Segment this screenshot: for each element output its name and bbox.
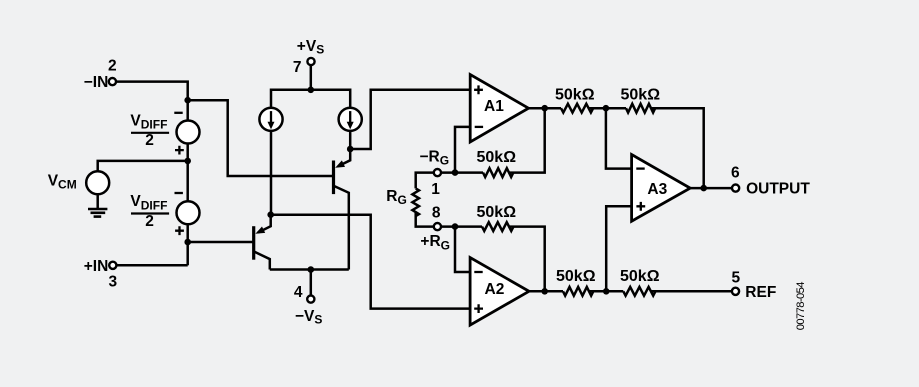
svg-text:4: 4 [294,284,303,301]
svg-text:7: 7 [293,59,302,76]
svg-text:50kΩ: 50kΩ [477,149,517,166]
svg-text:50kΩ: 50kΩ [621,86,661,103]
svg-text:2: 2 [145,213,154,230]
svg-text:2: 2 [145,132,154,149]
svg-text:3: 3 [108,273,117,290]
svg-text:50kΩ: 50kΩ [477,204,517,221]
svg-text:00778-054: 00778-054 [795,282,807,330]
svg-text:−IN: −IN [84,74,109,91]
svg-text:+IN: +IN [84,258,109,275]
svg-text:REF: REF [745,284,776,301]
svg-text:A3: A3 [647,181,667,198]
svg-text:2: 2 [108,57,117,74]
svg-text:8: 8 [432,205,441,222]
svg-text:A2: A2 [485,281,505,298]
svg-text:5: 5 [731,269,740,286]
svg-text:50kΩ: 50kΩ [620,268,660,285]
svg-text:1: 1 [431,181,440,198]
svg-text:50kΩ: 50kΩ [556,268,596,285]
svg-text:6: 6 [731,164,740,181]
svg-text:OUTPUT: OUTPUT [746,181,810,198]
svg-text:A1: A1 [484,98,504,115]
svg-text:50kΩ: 50kΩ [555,86,595,103]
